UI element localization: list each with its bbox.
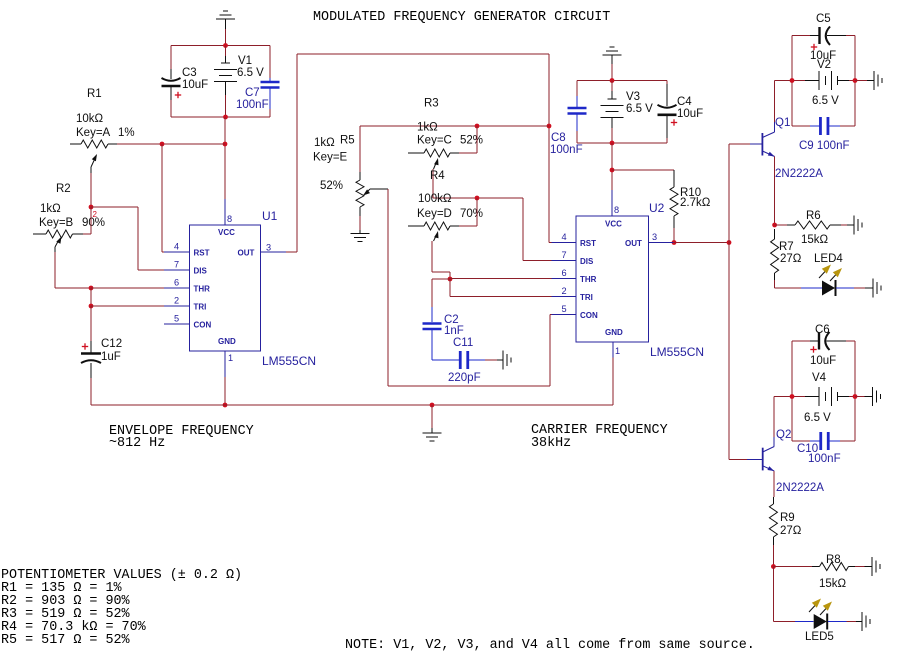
svg-text:TRI: TRI [580, 293, 593, 302]
resistor R10 [612, 169, 674, 171]
junction (R8/LED5 node) [771, 564, 776, 569]
capacitor C12 [90, 306, 92, 341]
pin 4 stub RST U2 [552, 242, 577, 244]
wire Q2 emitter to R9 [773, 471, 775, 497]
junction [853, 394, 858, 399]
svg-text:U1: U1 [262, 209, 278, 223]
svg-text:2: 2 [562, 286, 567, 296]
svg-text:Key=A: Key=A [76, 127, 111, 139]
pin 2 stub TRI U1 [164, 305, 190, 307]
svg-text:3: 3 [652, 232, 657, 242]
resistor R9 [772, 496, 775, 498]
capacitor C11 [432, 359, 460, 361]
R4 wiper arrow [434, 231, 438, 238]
wire R4 right end up to DIS rail [459, 225, 477, 227]
wire ground bus [91, 404, 613, 406]
wire C11 to ground [485, 359, 497, 361]
svg-text:8: 8 [614, 205, 619, 215]
ground (V2, rotated) [855, 80, 867, 82]
R2 wiper arrow [54, 247, 56, 253]
svg-text:V1: V1 [238, 55, 252, 67]
svg-text:1uF: 1uF [101, 351, 121, 363]
ground (LED5, rotated) [856, 621, 862, 623]
svg-text:LM555CN: LM555CN [650, 345, 704, 359]
svg-text:220pF: 220pF [448, 372, 481, 384]
junction (R10 tap) [610, 168, 615, 173]
junction TRI node [89, 304, 94, 309]
svg-text:2: 2 [174, 296, 179, 306]
wire U1 GND to bus [224, 377, 226, 405]
LED4 [775, 287, 801, 289]
svg-text:Key=E: Key=E [313, 152, 348, 164]
wire V4 right rail [854, 341, 856, 441]
junction THR/TRI node [448, 277, 453, 282]
svg-text:90%: 90% [82, 217, 105, 229]
junction (R3/R5 rail tap) [547, 124, 552, 129]
wire Q1 emitter down [774, 157, 776, 226]
svg-text:15kΩ: 15kΩ [801, 234, 829, 246]
svg-text:LED5: LED5 [805, 631, 834, 643]
ground (V4, rotated) [855, 396, 865, 398]
wire node to U2 THR pin 6 [450, 278, 552, 280]
svg-text:DIS: DIS [194, 267, 208, 276]
svg-text:V2: V2 [817, 59, 831, 71]
battery V3 [611, 81, 613, 92]
wire R3/R4 junction rail to U2 DIS pin 7 [433, 197, 523, 199]
svg-text:OUT: OUT [625, 239, 642, 248]
svg-text:52%: 52% [460, 135, 483, 147]
junction [160, 142, 165, 147]
svg-text:5: 5 [174, 314, 179, 324]
wire node2 to U1 DIS pin 7 [91, 206, 138, 208]
wire Q1 collector to V2 [774, 81, 776, 123]
battery V2 [792, 80, 805, 82]
svg-text:6.5 V: 6.5 V [804, 412, 831, 424]
wire R5 wiper to U2 CON pin 5 [387, 189, 389, 386]
pin 8 stub U2 VCC [611, 190, 613, 216]
svg-text:R5 = 517 Ω = 52%: R5 = 517 Ω = 52% [1, 633, 131, 648]
wire V2 right rail [854, 36, 856, 127]
svg-text:10kΩ: 10kΩ [76, 113, 104, 125]
wire U2 OUT to base bus [674, 242, 729, 244]
svg-text:3: 3 [266, 243, 271, 253]
svg-text:V3: V3 [626, 91, 640, 103]
svg-text:CON: CON [580, 311, 598, 320]
op-amp timer U2 LM555CN box [576, 216, 649, 342]
svg-text:THR: THR [194, 285, 211, 294]
ground (R5) [359, 230, 361, 234]
wire ground to V1 rail [225, 19, 227, 29]
svg-text:C3: C3 [182, 67, 197, 79]
capacitor C10 (on V4 bottom rail) [792, 440, 810, 442]
svg-text:GND: GND [605, 328, 623, 337]
svg-text:38kHz: 38kHz [531, 436, 571, 451]
svg-text:U2: U2 [649, 201, 665, 215]
wire to U1 RST pin 4 [161, 144, 163, 252]
wire ground to V3 rail [611, 55, 613, 64]
pin 6 stub THR U2 [552, 278, 577, 280]
R3 wiper arrow [434, 158, 438, 165]
svg-text:R3: R3 [424, 98, 439, 110]
wire R3 right end up to top rail [459, 152, 477, 154]
svg-text:1kΩ: 1kΩ [314, 137, 335, 149]
ground (main) [431, 405, 433, 428]
junction [790, 394, 795, 399]
svg-text:1: 1 [615, 346, 620, 356]
wire V1 to U1 VCC [224, 117, 226, 199]
ground (R8, rotated) [865, 566, 873, 568]
wire V3 top rail [577, 80, 667, 82]
wire C12 to ground bus [90, 378, 92, 405]
junction (Q1 emitter node) [772, 223, 777, 228]
wire U1 OUT to U2 RST [286, 251, 297, 253]
potentiometer R5 [359, 126, 361, 172]
svg-text:7: 7 [174, 260, 179, 270]
svg-text:1: 1 [228, 353, 233, 363]
svg-text:C4: C4 [677, 96, 692, 108]
svg-text:6: 6 [174, 278, 179, 288]
junction [727, 240, 732, 245]
capacitor C2 [432, 278, 450, 280]
pin 6 stub THR U1 [164, 287, 190, 289]
junction [475, 124, 480, 129]
ground (top of V1 block) [216, 18, 235, 20]
svg-text:C8: C8 [551, 132, 566, 144]
svg-text:NOTE: V1, V2, V3, and V4 all c: NOTE: V1, V2, V3, and V4 all come from s… [345, 638, 755, 651]
wire base bus vertical [728, 144, 730, 460]
svg-text:RST: RST [580, 239, 596, 248]
svg-text:1kΩ: 1kΩ [40, 203, 61, 215]
svg-text:2N2222A: 2N2222A [775, 168, 823, 180]
svg-text:CON: CON [194, 321, 212, 330]
svg-text:C6: C6 [815, 324, 830, 336]
potentiometer R2 [33, 233, 46, 235]
svg-text:R2: R2 [56, 183, 71, 195]
resistor R8 [773, 566, 812, 568]
svg-text:100nF: 100nF [550, 144, 583, 156]
junction [223, 43, 228, 48]
svg-text:MODULATED FREQUENCY GENERATOR: MODULATED FREQUENCY GENERATOR CIRCUIT [313, 10, 610, 25]
junction [475, 196, 480, 201]
R5 wiper arrow [370, 188, 388, 190]
svg-text:R5: R5 [340, 135, 355, 147]
svg-text:OUT: OUT [238, 249, 255, 258]
svg-text:100nF: 100nF [236, 99, 269, 111]
ground (C11, rotated) [497, 359, 503, 361]
svg-text:R8: R8 [826, 554, 841, 566]
pin 5 stub CON U2 [552, 314, 577, 316]
svg-text:27Ω: 27Ω [780, 525, 802, 537]
R1 wiper arrow [90, 167, 92, 173]
svg-text:R6: R6 [806, 210, 821, 222]
battery V4 [792, 396, 805, 398]
junction node 2 [89, 205, 94, 210]
svg-text:TRI: TRI [194, 303, 207, 312]
svg-text:52%: 52% [320, 180, 343, 192]
svg-text:4: 4 [174, 242, 179, 252]
junction [853, 78, 858, 83]
svg-text:V4: V4 [812, 372, 827, 384]
potentiometer R4 [408, 225, 424, 227]
ground (LED4, rotated) [865, 287, 873, 289]
wire node to U2 TRI pin 2 [449, 279, 451, 297]
pin 7 stub DIS U2 [552, 260, 577, 262]
LED5 [772, 567, 774, 622]
wire V1 bottom rail [171, 116, 270, 118]
svg-text:VCC: VCC [605, 220, 622, 229]
svg-text:C5: C5 [816, 13, 831, 25]
pin 1 stub GND U2 [612, 342, 614, 358]
svg-text:THR: THR [580, 275, 597, 284]
junction [790, 78, 795, 83]
wire R5/R3 top rail [360, 125, 549, 127]
svg-text:RST: RST [194, 249, 210, 258]
capacitor C6 (on V4 top rail) [792, 340, 810, 342]
wire R4 wiper to THR/TRI node [431, 241, 433, 272]
transistor Q2 2N2222A [762, 448, 764, 471]
resistor R7 [774, 229, 776, 239]
svg-text:1%: 1% [118, 127, 135, 139]
svg-text:R1: R1 [87, 88, 102, 100]
potentiometer R1 [70, 143, 81, 145]
ground (R6, rotated) [847, 224, 854, 226]
battery V1 [225, 46, 227, 57]
svg-text:DIS: DIS [580, 257, 594, 266]
wire R5 to ground [359, 216, 361, 230]
wire bus to Q2 base [729, 459, 747, 461]
svg-text:C12: C12 [101, 338, 122, 350]
capacitor C7 (on right rail) [269, 46, 271, 79]
capacitor C9 (on V2 bottom rail) [792, 125, 810, 127]
junction [223, 403, 228, 408]
svg-text:Key=C: Key=C [417, 135, 452, 147]
svg-text:6: 6 [562, 268, 567, 278]
potentiometer R3 [408, 152, 424, 154]
resistor R6 [775, 224, 787, 226]
wire V2 left rail [791, 36, 793, 127]
wire V4 left rail [791, 341, 793, 441]
wire R1 right to VCC node [117, 143, 225, 145]
svg-text:2.7kΩ: 2.7kΩ [680, 197, 711, 209]
capacitor C3 (on left rail) [170, 46, 172, 70]
LED4 emission arrows [819, 272, 825, 279]
pin 3 stub OUT U1 [261, 251, 287, 253]
ground (top of V3 block) [603, 54, 622, 56]
junction THR node [89, 286, 94, 291]
svg-text:100kΩ: 100kΩ [418, 193, 452, 205]
svg-text:100nF: 100nF [808, 453, 841, 465]
junction [610, 141, 615, 146]
wire U2 GND to bus [612, 358, 614, 406]
junction (U2 OUT node) [672, 240, 677, 245]
svg-text:10uF: 10uF [182, 79, 208, 91]
svg-text:VCC: VCC [218, 228, 235, 237]
wire bus to Q1 base [729, 143, 750, 145]
junction [610, 78, 615, 83]
svg-text:C9 100nF: C9 100nF [799, 140, 850, 152]
wire Q2 collector to V4 [773, 397, 775, 438]
svg-text:R4: R4 [430, 170, 445, 182]
pin 7 stub DIS U1 [164, 269, 190, 271]
svg-text:Q1: Q1 [775, 117, 790, 129]
svg-text:C7: C7 [245, 87, 260, 99]
svg-text:15kΩ: 15kΩ [819, 578, 847, 590]
svg-text:LED4: LED4 [814, 253, 843, 265]
svg-text:27Ω: 27Ω [780, 253, 802, 265]
junction at main ground [430, 403, 435, 408]
svg-text:1kΩ: 1kΩ [417, 122, 438, 134]
junction (R1 tap on VCC wire) [223, 142, 228, 147]
svg-text:R7: R7 [779, 241, 794, 253]
pin 5 stub CON U1 [164, 323, 190, 325]
svg-text:10uF: 10uF [810, 355, 836, 367]
wire V3 to U2 VCC [611, 143, 613, 190]
svg-text:4: 4 [562, 232, 567, 242]
LED5 emission arrows [809, 606, 815, 613]
junction [223, 115, 228, 120]
pin 2 stub TRI U2 [552, 296, 577, 298]
svg-text:Key=B: Key=B [39, 217, 74, 229]
op-amp timer U1 LM555CN box [190, 225, 261, 351]
svg-text:Key=D: Key=D [417, 208, 452, 220]
svg-text:6.5 V: 6.5 V [237, 67, 264, 79]
pin 4 stub RST U1 [164, 251, 190, 253]
svg-text:6.5 V: 6.5 V [626, 103, 653, 115]
capacitor C8 (on left rail) [576, 81, 578, 97]
svg-text:~812 Hz: ~812 Hz [109, 436, 165, 451]
svg-text:70%: 70% [460, 208, 483, 220]
transistor Q1 2N2222A [761, 133, 763, 156]
capacitor C4 (on right rail) [666, 81, 668, 85]
pin 3 stub OUT U2 [649, 242, 674, 244]
svg-text:LM555CN: LM555CN [262, 354, 316, 368]
wire TRI node to U1 pin 2 [91, 305, 164, 307]
wire R2 wiper to THR node [54, 252, 56, 288]
pin 8 stub U1 VCC [224, 199, 226, 225]
wire R1 wiper down to net 2 [90, 173, 92, 207]
pin 1 stub GND U1 [224, 351, 226, 377]
svg-text:Q2: Q2 [776, 429, 791, 441]
capacitor C5 (on V2 top rail) [792, 35, 810, 37]
wire THR node to U1 pin 6 [91, 287, 164, 289]
wire R3 wiper to DIS rail [432, 169, 434, 198]
svg-text:8: 8 [227, 214, 232, 224]
svg-text:7: 7 [562, 250, 567, 260]
svg-text:C11: C11 [453, 337, 473, 349]
svg-text:10uF: 10uF [677, 108, 703, 120]
wire V1 top rail [171, 45, 270, 47]
svg-text:5: 5 [562, 304, 567, 314]
svg-text:2N2222A: 2N2222A [776, 482, 824, 494]
wire R2 right up to node 2 [83, 233, 91, 235]
svg-text:6.5 V: 6.5 V [812, 95, 839, 107]
wire down to TRI node [90, 288, 92, 306]
svg-text:1nF: 1nF [444, 325, 464, 337]
svg-text:R9: R9 [780, 512, 795, 524]
svg-text:GND: GND [218, 337, 236, 346]
wire V3 bottom rail [577, 142, 667, 144]
